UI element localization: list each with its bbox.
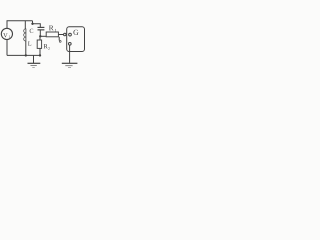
junction dot R2 bottom: [39, 54, 41, 56]
test tap wire below R1: [58, 37, 60, 41]
wire node B to R1: [40, 35, 46, 37]
ground right: [62, 63, 78, 67]
wire G bottom terminal down: [69, 45, 71, 63]
wire node B down to R2: [39, 36, 41, 40]
label C: [30, 29, 34, 33]
terminal circle outside G: [64, 33, 67, 36]
wire branch down to L: [24, 21, 26, 29]
wire node A right and down to C: [33, 24, 41, 27]
voltage source V1: [1, 28, 12, 39]
terminal circle G bottom: [68, 42, 71, 45]
label R2: [44, 44, 48, 48]
wire R2 bottom down: [39, 48, 41, 55]
junction dot L bottom: [25, 54, 27, 56]
wire V1 top to corner: [7, 21, 33, 29]
wire V1 bottom down: [6, 39, 8, 55]
wire R1 to terminal: [58, 34, 63, 36]
inductor L: [25, 29, 27, 42]
wire C bottom down to node B: [39, 30, 41, 36]
wire L bottom down: [25, 41, 27, 55]
resistor R2: [37, 40, 41, 48]
terminal circle G top: [69, 33, 72, 36]
test tap circle: [59, 41, 61, 43]
resistor R1: [46, 32, 58, 37]
wire ground tap left: [33, 55, 35, 63]
label L: [28, 42, 31, 46]
capacitor C bottom plate: [38, 29, 45, 31]
instrument box G: [67, 27, 85, 52]
ground left: [28, 63, 41, 67]
label G: [73, 30, 78, 35]
label V1: [3, 33, 7, 37]
wire bottom horizontal: [7, 54, 40, 56]
capacitor C top plate: [38, 26, 45, 28]
junction dot node B: [39, 35, 41, 37]
label R1: [49, 25, 54, 30]
junction dot node A: [31, 23, 33, 25]
wire corner down to node A: [32, 21, 34, 24]
